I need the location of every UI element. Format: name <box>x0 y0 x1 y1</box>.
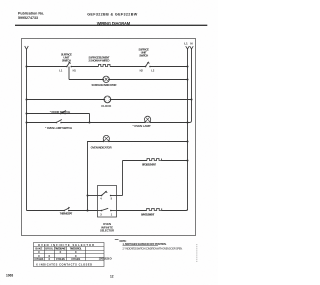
svg-text:CYCLES: CYCLES <box>71 257 80 261</box>
wire: broil riser <box>122 161 124 196</box>
svg-text:TIMED BROIL: TIMED BROIL <box>70 247 82 251</box>
switch selector contact 2-1 <box>100 208 113 216</box>
svg-text:5995274733: 5995274733 <box>18 16 38 20</box>
lamp oven indicator <box>91 135 112 149</box>
selector label <box>100 222 114 233</box>
publication number text <box>18 12 44 21</box>
resistor broil element <box>142 159 161 167</box>
wire: selector lower contact line <box>98 210 102 212</box>
switch selector contact 4-5 <box>100 191 112 201</box>
node L1 bus (left) with Y terminal <box>25 46 29 211</box>
svg-text:X: X <box>38 250 40 254</box>
svg-text:H2: H2 <box>140 69 144 72</box>
wire: selector upper contact line <box>88 195 102 197</box>
switch thermostat <box>60 207 73 215</box>
lamp surface indicator <box>92 76 117 87</box>
surface unit switch SW1 (left) <box>59 53 76 73</box>
switch door switch <box>50 110 70 114</box>
node junction thermostat-tap <box>87 210 89 212</box>
svg-text:X INDICATES CONTACTS CLOSED: X INDICATES CONTACTS CLOSED <box>36 262 92 266</box>
svg-text:* DOOR SWITCH: * DOOR SWITCH <box>50 110 70 114</box>
svg-text:H1: H1 <box>73 69 77 72</box>
node junction oven lamp - N bus <box>187 122 189 124</box>
wire: oven indicator branch <box>88 142 104 211</box>
wire: oven lamp parallel branch upper <box>27 113 90 115</box>
svg-text:SURFACE INDICATOR: SURFACE INDICATOR <box>92 83 117 87</box>
svg-text:* OVEN LAMP SWITCH: * OVEN LAMP SWITCH <box>45 126 72 130</box>
svg-text:SELECTOR: SELECTOR <box>100 229 114 233</box>
svg-text:4: 4 <box>100 198 102 201</box>
wire: bake circuit <box>117 210 147 212</box>
svg-text:L1: L1 <box>184 41 188 45</box>
model numbers text <box>87 13 138 17</box>
wire: surface element circuit <box>27 66 67 68</box>
table oven infinite selector <box>34 243 105 267</box>
svg-text:CYCLES: CYCLES <box>56 257 65 261</box>
node N bus (right inner) with Y terminal <box>186 46 190 210</box>
svg-text:* OVEN LAMP: * OVEN LAMP <box>133 124 151 128</box>
svg-text:L2: L2 <box>151 69 155 72</box>
svg-text:X: X <box>48 257 50 261</box>
svg-text:2. * INDICATES SWITCH CONDITIO: 2. * INDICATES SWITCH CONDITION WITH OVE… <box>123 247 183 250</box>
svg-text:OVEN INFINITE SELECTOR: OVEN INFINITE SELECTOR <box>38 243 94 247</box>
wire: surface indicator branch <box>68 67 70 80</box>
surface unit switch SW2 (right) <box>138 48 154 73</box>
svg-text:BAKE ELEMENT: BAKE ELEMENT <box>141 213 155 217</box>
resistor surface element <box>89 56 111 67</box>
node L2 bus (right outer) with labels <box>184 41 193 122</box>
svg-text:12: 12 <box>110 274 114 278</box>
svg-text:BROIL: BROIL <box>45 247 53 251</box>
svg-text:N: N <box>190 41 192 45</box>
clock <box>101 96 111 108</box>
wire: clock circuit <box>27 99 105 101</box>
svg-text:CYCLES: CYCLES <box>34 257 43 261</box>
fold mark <box>196 244 198 262</box>
WIRING DIAGRAM title <box>97 21 131 26</box>
wire: oven lamp parallel branch lower / oven lamp line <box>27 122 57 124</box>
svg-text:THERMOSTAT: THERMOSTAT <box>60 211 73 215</box>
svg-text:SWITCH: SWITCH <box>139 54 148 58</box>
svg-text:TIMED BAKE: TIMED BAKE <box>55 247 66 251</box>
svg-text:X: X <box>60 250 62 254</box>
lamp oven lamp <box>133 116 152 128</box>
svg-text:X: X <box>75 250 77 254</box>
wire: right connector of parallel branch <box>89 114 91 123</box>
switch oven lamp switch <box>45 120 72 131</box>
svg-text:BAKE: BAKE <box>35 247 42 251</box>
oven selector box <box>98 186 117 218</box>
node junction L1-surface <box>26 66 28 68</box>
svg-text:BROIL ELEMENT: BROIL ELEMENT <box>142 163 156 167</box>
svg-text:5: 5 <box>111 198 113 201</box>
note lead dash <box>115 239 119 241</box>
resistor bake element <box>141 208 162 216</box>
header rule <box>15 24 207 26</box>
svg-text:2 SHOWN 4 WIRED: 2 SHOWN 4 WIRED <box>89 58 110 62</box>
svg-text:OVEN INDICATOR: OVEN INDICATOR <box>91 146 112 150</box>
svg-text:3203223 D: 3203223 D <box>99 256 113 260</box>
svg-text:SWITCH: SWITCH <box>62 59 71 63</box>
diagram border frame <box>22 39 196 236</box>
node junction N-surface <box>187 66 189 68</box>
svg-text:3: 3 <box>100 213 102 216</box>
svg-text:1: 1 <box>111 213 113 216</box>
svg-text:GEF322BB & GEF322BW: GEF322BB & GEF322BW <box>87 13 138 17</box>
wire: broil circuit <box>123 160 148 162</box>
wire: thermostat line <box>27 210 65 212</box>
notes <box>120 240 183 250</box>
svg-text:CLOCK: CLOCK <box>101 104 111 108</box>
svg-text:1068: 1068 <box>6 273 13 277</box>
svg-text:Publication No.: Publication No. <box>18 12 44 16</box>
svg-text:L1: L1 <box>59 69 63 72</box>
